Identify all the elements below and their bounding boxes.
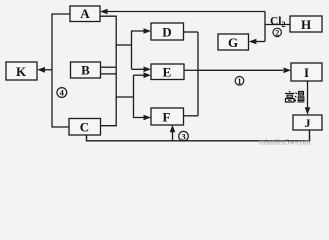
svg-text:E: E [163, 65, 172, 80]
arrow into G [249, 39, 257, 45]
svg-text:C: C [80, 120, 89, 135]
box A [70, 6, 100, 22]
arrow into I [284, 68, 292, 74]
box D [151, 23, 184, 40]
svg-text:F: F [163, 110, 171, 125]
arrow into J [305, 107, 311, 115]
svg-text:I: I [304, 65, 309, 80]
wire A right down trunk1 to C right [100, 16, 116, 126]
circled 3 [179, 131, 189, 141]
wire E right to collector [184, 69, 198, 71]
wire D right to collector [184, 31, 199, 33]
arrow into E lower [144, 72, 152, 78]
wire branch a vertical D-E [132, 31, 144, 69]
wire collector to I [198, 69, 283, 71]
svg-text:J: J [305, 116, 311, 130]
box H [290, 16, 322, 32]
svg-text:K: K [16, 64, 27, 79]
wire top line from Cl2 junction [108, 12, 266, 42]
wire bottom to F [172, 131, 174, 141]
svg-text:H: H [301, 17, 311, 32]
arrow into K [37, 67, 52, 73]
svg-text:2: 2 [275, 28, 279, 37]
wire branch b vertical E-F [134, 75, 144, 117]
wire B to trunk1 lower [101, 73, 117, 75]
wire J bottom to C bottom [87, 130, 310, 141]
circled 4 [57, 88, 67, 98]
wire branch a to E [132, 68, 144, 70]
box G [218, 34, 249, 50]
wire connector trunk1 to branch b [116, 96, 133, 98]
svg-text:Cl2: Cl2 [270, 16, 286, 30]
svg-text:3: 3 [181, 132, 185, 142]
wire connector trunk1 to branch a [116, 44, 131, 46]
wire collector vertical [197, 32, 199, 116]
watermark [259, 138, 311, 147]
svg-text:D: D [162, 25, 171, 40]
wire F right to collector [184, 115, 199, 117]
label high temperature [285, 91, 305, 102]
box E [151, 64, 184, 80]
label Cl2 [270, 16, 286, 30]
arrow into F left [144, 115, 152, 121]
svg-text:1: 1 [238, 77, 242, 86]
arrow into A right [100, 9, 108, 15]
box K [6, 62, 37, 80]
wire H to junction [265, 24, 290, 26]
arrow into D [144, 28, 152, 34]
svg-text:G: G [228, 35, 238, 50]
box F [151, 108, 184, 125]
svg-text:B: B [81, 63, 90, 78]
wire B to trunk1 upper [101, 66, 117, 68]
wire I to J [307, 81, 309, 108]
wire branch b to E [134, 74, 144, 76]
box C [69, 119, 101, 136]
box B [71, 62, 101, 78]
svg-text:4: 4 [60, 88, 65, 98]
arrow into E upper [144, 67, 152, 73]
box J [293, 115, 322, 130]
wire junction to G [256, 41, 265, 43]
circled 1 [235, 77, 244, 86]
arrow into F bottom [170, 125, 176, 133]
circled 2 [273, 28, 281, 37]
svg-text:A: A [80, 6, 90, 21]
svg-text:mianfen5w.com: mianfen5w.com [259, 138, 311, 147]
box I [291, 63, 322, 81]
wire left trunk A-K-C [52, 14, 70, 127]
